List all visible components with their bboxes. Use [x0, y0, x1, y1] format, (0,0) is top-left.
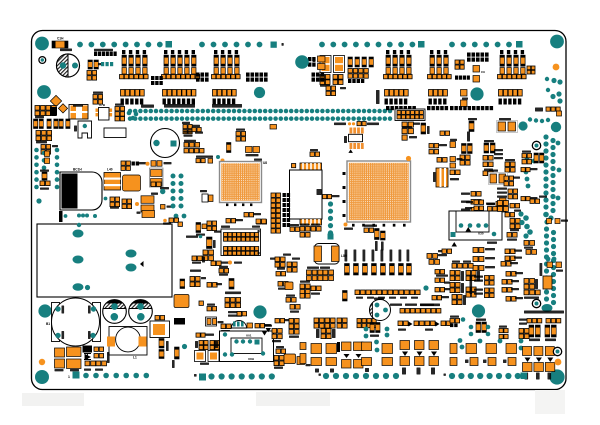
caps vertical x370 — [370, 323, 380, 333]
capacitor G9H pads — [161, 205, 166, 210]
orange squares x500 y198 — [500, 198, 507, 204]
capacitor C1H8 above U30 — [466, 201, 473, 203]
IC U11 body — [290, 170, 323, 219]
mounting hole top-center — [295, 55, 309, 69]
battery BT1 — [78, 121, 92, 138]
inductor L7 R106 row — [452, 264, 462, 269]
connector bank 6 — [500, 50, 525, 74]
resistor network RP7 RP8 — [270, 258, 278, 260]
vertical bar R26 — [180, 279, 185, 289]
fiducial ring top-left — [39, 57, 46, 64]
resistor R66 C167 row — [196, 156, 213, 158]
teal via column right A — [543, 134, 548, 209]
resistor G17 R2D — [246, 147, 253, 153]
capacitor diamond D2 — [50, 95, 61, 106]
mounting hole top-right — [550, 35, 564, 49]
R137 R134 cluster — [505, 162, 515, 172]
via row top C — [319, 42, 415, 48]
power pads RY1 large — [67, 347, 82, 357]
transistor Q12 mark — [264, 325, 272, 327]
pads x199 y301 — [199, 301, 203, 305]
transistor U12 pads — [547, 262, 553, 268]
fiducial ring bottom-right-mid — [532, 299, 540, 307]
cluster L4x C4x — [225, 292, 241, 295]
shield arrow mark — [140, 261, 144, 267]
diode D1 can — [57, 54, 80, 77]
faint silkscreen smudge bottom-center — [256, 392, 330, 406]
resistor R3x row — [163, 219, 167, 223]
capacitor C31 pads — [257, 220, 262, 225]
black component BT — [50, 107, 57, 116]
BGA U10 bottom pin ticks — [352, 224, 406, 227]
diode cluster 3x2 bottom-right — [523, 347, 532, 356]
capacitor G4H pads — [151, 161, 156, 167]
connector bank 4 — [386, 50, 411, 74]
via row top B — [199, 42, 262, 48]
diode col 2 right — [415, 341, 425, 350]
mounting hole center-bottom — [253, 305, 266, 318]
capacitor tall C2 — [207, 237, 213, 249]
resistor R1x vertical pair — [229, 279, 234, 290]
labels R28 — [370, 335, 379, 337]
header dual column right A — [271, 193, 281, 233]
orange via bottom-right — [555, 359, 562, 366]
cap pads y219 — [256, 219, 261, 224]
svg-text:C1H: C1H — [57, 37, 64, 41]
U01 pin1 triangle — [262, 332, 267, 336]
resistor R D pads — [290, 305, 300, 310]
R47 cluster below — [504, 176, 514, 180]
header grid left — [36, 131, 52, 141]
capacitor C1xx vertical x176 — [175, 347, 180, 359]
teal blob chain right B — [543, 212, 549, 218]
resistor cluster x430 y143 — [429, 144, 439, 148]
connector J2 top — [395, 109, 425, 121]
capacitor pads x152 y183 — [151, 182, 161, 187]
via row top D — [449, 42, 512, 48]
pads row x527 y318 — [527, 319, 542, 323]
board outline — [32, 31, 567, 390]
resistor R5x cluster right — [435, 270, 445, 274]
black bar x335 — [337, 342, 340, 352]
capacitor C44 pair — [320, 75, 330, 85]
black pad block right — [467, 53, 489, 57]
U11 inner pads — [292, 164, 296, 168]
test point TP9 — [151, 193, 158, 195]
via row bottom A — [83, 373, 149, 379]
vertical bar C16 — [227, 143, 231, 153]
tantalum capacitor C49 — [150, 168, 164, 187]
capacitor C4H4 above U30 — [465, 207, 472, 209]
capacitor C360 — [196, 333, 205, 337]
RC8 cluster pads — [524, 279, 535, 290]
U10 left pin marks — [343, 172, 346, 175]
resistor R1YB pads — [432, 296, 442, 300]
resistor R2Y pads — [300, 294, 310, 299]
pad D8 — [297, 357, 305, 365]
U15 corner marks — [258, 230, 260, 232]
resistor R182 C182 — [219, 269, 229, 273]
teal via column right B — [550, 138, 555, 213]
transistor Q11 pads — [547, 219, 552, 224]
capacitor C11 C12 — [450, 157, 456, 162]
pads w labels x499 — [499, 329, 508, 333]
black labels above via rows E — [427, 106, 448, 110]
svg-text:L1: L1 — [133, 356, 137, 360]
teal via column right E — [544, 275, 549, 301]
mounting hole bottom mid-right — [472, 304, 485, 317]
fiducial ring corner — [553, 347, 561, 355]
capacitor C9H small — [473, 66, 480, 73]
capacitor C31b pads — [435, 288, 445, 292]
cluster C82 RB7 C1N — [497, 188, 507, 190]
GP4 pads — [402, 135, 407, 140]
teal blob cluster right 1 — [518, 121, 527, 130]
inductor L9 C1Y5 pads — [524, 241, 535, 246]
vertical caps x476 — [476, 322, 486, 333]
capacitor C88 L30 pads — [427, 254, 438, 259]
BGA U8 bottom pin ticks — [226, 204, 252, 207]
capacitor C84 cluster — [300, 284, 310, 294]
capacitor C174 row — [486, 203, 495, 205]
via triple above shield — [64, 214, 68, 218]
capacitor C214 — [502, 288, 512, 293]
pad square top D — [516, 41, 523, 48]
inductor L10 striped vertical — [436, 168, 448, 187]
capacitor C102 vertical — [421, 123, 426, 134]
cluster x207 y221 — [207, 221, 217, 231]
U11 bottom pad bar — [300, 219, 322, 225]
pads D Q bottom — [274, 356, 284, 366]
svg-text:1: 1 — [68, 375, 70, 379]
caps above L10 — [437, 158, 447, 163]
black labels above via rows C — [212, 104, 242, 108]
mounting hole top-left — [35, 37, 49, 51]
resistor R910 row — [364, 225, 377, 227]
orange square QFN U x174 — [174, 295, 189, 308]
inductor L6 — [320, 56, 331, 73]
connector bank 5 — [430, 50, 448, 74]
svg-text:U8: U8 — [263, 161, 267, 165]
pads grid right of U01 — [272, 329, 282, 339]
capacitor C1xx top — [244, 213, 254, 217]
mounting hole mid-top-left — [37, 85, 51, 99]
diode D1 bottom pads — [276, 349, 286, 353]
resistor R5H8 cluster — [462, 144, 467, 154]
caps C310 — [255, 324, 265, 328]
teal dots bottom mid — [364, 327, 369, 332]
teal via column right edge extras — [556, 141, 561, 146]
capacitor C18 above BGA1 — [236, 132, 246, 142]
connector bank 3 — [214, 50, 239, 74]
black labels above via rows D — [386, 106, 416, 110]
svg-text:U01: U01 — [246, 334, 252, 338]
fiducial ring right — [532, 141, 540, 149]
white cap box left of BGA1 — [202, 194, 208, 202]
resistor R104 row — [506, 272, 516, 277]
capacitor C1W8 R98 — [505, 249, 515, 254]
B1 teal pads — [55, 306, 60, 311]
capacitor above L3 — [155, 316, 165, 320]
svg-text:B1: B1 — [46, 322, 50, 326]
pads row x546 y318 — [546, 319, 561, 323]
U30 triangle marks — [466, 227, 472, 232]
resistor R360 pads — [317, 189, 322, 195]
pads x300 y222 — [300, 233, 310, 238]
test point TPT — [132, 162, 140, 166]
resistor R3x7 — [207, 307, 217, 311]
via row bottom D — [449, 373, 521, 379]
big pads row 1 bottom-center — [311, 344, 322, 354]
labels RC4P R24B — [420, 304, 440, 307]
cluster L44 R44 lower-left — [190, 270, 201, 272]
black component D5 — [83, 346, 93, 353]
mounting hole bottom-right — [549, 369, 564, 384]
capacitor C908 pair — [497, 121, 518, 133]
teal dots between rows — [458, 338, 463, 343]
vertical label CA98 C46F — [470, 275, 473, 294]
black labels above via rows B — [164, 104, 195, 108]
capacitor C100 — [402, 129, 413, 134]
diode pack B — [354, 342, 364, 351]
capacitor L4 C1O1 pads right edge — [521, 168, 530, 172]
pads small y347 — [94, 347, 104, 351]
capacitor can C2 hatched — [103, 300, 127, 324]
single column pack — [362, 342, 372, 351]
vertical caps x545 y325 — [545, 325, 556, 337]
label C8H8 vertical — [540, 263, 543, 276]
IC U1 white box — [104, 128, 126, 138]
resistor cluster right of D21 — [183, 125, 192, 134]
black pads mid-top — [308, 57, 316, 61]
cluster G C x278 — [278, 282, 288, 287]
transistor B06 can — [370, 300, 391, 321]
pad square bottom D — [521, 373, 528, 380]
IC U5 orange square — [123, 175, 141, 191]
resistor column group R3x — [348, 57, 373, 67]
capacitor C1Y8 vertical — [107, 352, 110, 363]
via grid mid-left — [171, 174, 176, 209]
pad square bottom-left — [73, 372, 80, 379]
via double row upper — [128, 109, 393, 114]
via pair above R3x — [174, 214, 179, 219]
small pads right of bank5 — [455, 60, 464, 69]
C R column x519 — [519, 319, 527, 321]
shield teal pads — [73, 230, 137, 291]
label R222R256 — [524, 311, 564, 314]
orange square x285 — [285, 282, 293, 290]
component U7B — [96, 108, 113, 121]
black labels above via rows A — [141, 105, 154, 108]
teal via left of pads — [104, 197, 108, 201]
resistor row center R29-R33 — [345, 264, 350, 276]
resistor pair R21 — [318, 56, 326, 62]
IC U11 connector — [300, 163, 322, 170]
diode pack A — [342, 342, 352, 351]
GP pads right — [402, 122, 413, 127]
pad x247 — [247, 323, 253, 328]
teal dot big near ring — [542, 304, 553, 312]
resistor R84 — [505, 213, 515, 217]
teal dots near U12 — [543, 218, 545, 220]
capacitor C100 row — [461, 193, 470, 195]
orange via near U5 — [135, 202, 139, 206]
resistor R5xx right — [290, 227, 300, 231]
mounting hole left-lower — [38, 304, 51, 317]
orange square QFN x284 — [284, 354, 296, 364]
resistor R47 C2H pads — [93, 95, 103, 105]
R136 R135 cluster — [522, 154, 532, 158]
capacitor C210 — [502, 280, 512, 285]
power pads BY1 — [55, 348, 65, 357]
black labels right segment — [450, 106, 493, 110]
via double row lower — [128, 116, 393, 121]
oscillator U9B — [350, 128, 364, 134]
capacitor C107 — [473, 257, 484, 262]
capacitor C101 — [52, 41, 68, 48]
mounting hole mid-top-right — [470, 87, 483, 100]
resistor network R968 grid — [307, 267, 319, 269]
teal dots around x476 — [469, 325, 474, 330]
pads below T2M — [192, 256, 202, 261]
big cluster bottom-left of quadrant — [450, 271, 460, 281]
capacitor C1x pads — [207, 283, 217, 288]
pads cluster above U5 — [121, 161, 130, 170]
capacitor T2M pair — [203, 250, 214, 261]
transistor D21 can — [151, 129, 180, 158]
mounting hole bottom-left — [35, 370, 49, 384]
svg-text:U30: U30 — [478, 232, 484, 236]
electrolytic B1 body — [52, 298, 101, 346]
pad cluster right of bank6 — [527, 66, 535, 74]
capacitor C1Y3 pads right edge — [521, 197, 530, 201]
pad square below U11 — [328, 234, 334, 240]
crystal X2 — [69, 105, 88, 120]
pads B6 RV3 — [85, 361, 96, 366]
diode col 3 right — [429, 341, 439, 350]
capacitor row left of column — [300, 227, 310, 232]
black component top — [174, 318, 185, 325]
vertical caps x529 y325 — [529, 325, 540, 337]
pads right edge x442 y249 — [442, 249, 452, 253]
GP8 pads — [286, 298, 296, 303]
resistor R303 — [310, 152, 320, 156]
black labels x182 y133 — [184, 131, 193, 133]
capacitor C104 small — [276, 272, 286, 276]
capacitor C1T4 — [487, 203, 495, 205]
big pads row bottom-right 1 — [450, 344, 457, 354]
capacitor C108 row — [461, 201, 470, 203]
teal dots pair bottom — [374, 340, 379, 345]
capacitor C900 R900 row — [334, 123, 346, 126]
black pad block left — [151, 76, 163, 80]
diode D41 vertical pair — [159, 339, 164, 349]
cluster R8H topleft — [450, 319, 460, 323]
resistor R120 — [506, 297, 516, 302]
caps C8 C9 bottom — [275, 319, 285, 323]
BGA U8 — [220, 162, 262, 203]
power cluster rows x314 y318 — [314, 318, 335, 328]
capacitor pair left of hole — [461, 90, 468, 97]
via row bottom B — [208, 373, 275, 379]
resistor R130 pads — [450, 170, 460, 175]
diamond pad small — [58, 104, 67, 113]
black pad block B — [246, 73, 268, 77]
resistor R1H8 pads — [45, 151, 50, 157]
via grid left — [34, 148, 39, 190]
svg-text:U8H: U8H — [248, 357, 254, 361]
inductor L3 bottom — [150, 321, 170, 338]
orange via bottom-left — [39, 359, 45, 365]
pads under U5 — [110, 197, 120, 207]
orange component above shield right — [142, 211, 155, 218]
svg-text:BC1H: BC1H — [73, 168, 82, 172]
capacitor G8H — [221, 324, 231, 329]
diode symbol — [84, 354, 91, 360]
big pads row 2 — [311, 358, 322, 366]
capacitor C76 vertical — [343, 291, 348, 302]
diode col 1 right — [400, 341, 410, 350]
resistor R307 R300 labels — [228, 311, 242, 313]
inductor L2 C107 pads — [530, 199, 540, 203]
capacitor C104 row — [461, 209, 470, 211]
via left lower — [36, 198, 41, 203]
label C U6 — [221, 226, 230, 228]
antenna bar above shield — [59, 211, 63, 222]
black pad block A — [196, 73, 209, 77]
via right of rows — [423, 285, 428, 290]
capacitor can C3 hatched — [129, 300, 153, 324]
shield top edge via — [77, 223, 81, 227]
resistor cluster R44 — [88, 60, 98, 69]
R6F C1Y8 pads — [507, 233, 517, 238]
capacitor row left y122 — [34, 119, 44, 129]
pads left edge bottom x300 — [300, 343, 306, 350]
component U9H label — [344, 223, 348, 227]
test point TP8 — [160, 187, 169, 189]
teal via column right C — [544, 226, 549, 273]
inductor L40 striped — [104, 173, 121, 191]
pads row x184 y143 — [184, 149, 204, 153]
via x184 — [182, 344, 187, 349]
svg-text:L40: L40 — [107, 168, 113, 172]
svg-text:C9: C9 — [481, 70, 485, 74]
cluster R130 C317 mid — [484, 143, 495, 153]
black column right — [283, 193, 291, 197]
capacitor C10x right — [440, 131, 450, 135]
BGA U10 — [347, 161, 411, 222]
capacitor C106 — [473, 248, 484, 253]
capacitor G07 pads — [510, 204, 520, 208]
component G16 cluster — [196, 223, 201, 233]
inductor L8H shielded — [314, 244, 339, 265]
diode D10 boxes — [195, 351, 220, 362]
DIMM connector U15 — [221, 229, 261, 256]
transistor Q9H can — [232, 321, 247, 328]
RF shield module M1 outline — [37, 224, 172, 297]
pad square bottom B — [199, 374, 206, 381]
capacitor C341 pair — [489, 173, 508, 185]
connector bank 1 — [122, 50, 147, 74]
via cluster top-right — [553, 64, 560, 71]
capacitor C15 pair — [510, 219, 520, 229]
black pad row top-left — [94, 52, 117, 57]
orange pad x270 y125 — [270, 125, 277, 130]
capacitor pads below L6 — [326, 86, 336, 96]
cluster R R6B — [199, 341, 208, 350]
diode G4 box — [206, 317, 217, 326]
teal via column right D — [551, 230, 556, 277]
